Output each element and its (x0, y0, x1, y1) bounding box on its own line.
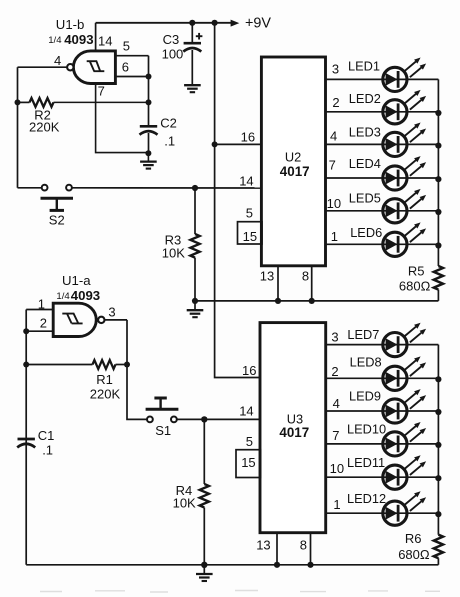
svg-text:4017: 4017 (279, 425, 309, 440)
svg-text:15: 15 (241, 455, 255, 470)
svg-text:LED11: LED11 (347, 455, 385, 470)
svg-text:1: 1 (331, 229, 338, 244)
wire U3 pin 7 to LED10 and rail (326, 443, 439, 445)
wire U3 pin 4 to LED9 and rail (326, 410, 439, 412)
wire U3 pin 10 to LED11 and rail (326, 476, 439, 478)
junction +9V column / U2 pin 16 (212, 141, 218, 147)
label U2 4017 (280, 149, 310, 179)
svg-text:7: 7 (98, 84, 105, 99)
svg-text:680Ω: 680Ω (398, 547, 430, 562)
junction ground bus / U2 pin 8 (309, 298, 315, 304)
svg-text:U1-a: U1-a (62, 273, 91, 288)
svg-text:4093: 4093 (64, 32, 93, 47)
svg-text:LED8: LED8 (350, 355, 382, 370)
wire bottom ground bus (26, 564, 438, 566)
LED10 (383, 422, 426, 456)
label R2 220K (29, 108, 60, 135)
junction R2 / tie column (146, 99, 152, 105)
svg-text:5: 5 (246, 434, 253, 449)
wire U2 pin 10 to LED5 and rail (326, 210, 439, 212)
svg-text:2: 2 (331, 364, 338, 379)
LED12 (383, 491, 426, 525)
svg-text:C2: C2 (160, 115, 177, 130)
switch S2 (pushbutton) (18, 185, 74, 211)
resistor R2 (18, 98, 149, 107)
label C3 100 (162, 32, 184, 62)
svg-text:2: 2 (332, 95, 339, 110)
resistor R4 10K (200, 419, 209, 564)
svg-text:4: 4 (330, 129, 337, 144)
junction rail / LED12 row (435, 511, 441, 517)
junction clock line / R3 (192, 185, 198, 191)
wire U3 pin 2 to LED8 and rail (326, 377, 439, 379)
wire U2 pin 7 to LED4 and rail (326, 177, 439, 179)
wire top ground bus (195, 300, 438, 302)
wire U3 pin 8 to ground bus (310, 533, 312, 565)
wire U1-a pin 1 input (26, 309, 53, 311)
svg-text:14: 14 (239, 174, 253, 189)
junction pin 2 / left column (23, 328, 29, 334)
svg-text:U3: U3 (287, 411, 303, 426)
junction R2 / output column (15, 99, 21, 105)
svg-text:R5: R5 (408, 263, 425, 278)
capacitor C1 .1 (18, 438, 35, 441)
svg-text:3: 3 (332, 62, 339, 77)
LED6 (383, 222, 426, 256)
wire LED cathode rail (top) (437, 79, 439, 266)
wire U1-b pin 14 to rail (95, 23, 97, 51)
junction rail / LED8 row (435, 376, 441, 382)
wire U1-a pin 2 input (26, 330, 53, 332)
resistor R5 680 ohm (434, 266, 443, 301)
svg-text:7: 7 (329, 158, 336, 173)
label R5 680 (399, 263, 431, 293)
junction rail / LED3 row (435, 143, 441, 149)
junction C2 / pin 7 ground node (145, 150, 151, 156)
svg-text:100: 100 (162, 47, 184, 62)
LED11 (383, 455, 426, 489)
svg-text:13: 13 (256, 538, 270, 553)
label R4 10K (173, 483, 196, 510)
svg-text:16: 16 (242, 363, 256, 378)
resistor R1 220K (26, 360, 127, 369)
svg-text:4: 4 (333, 396, 340, 411)
svg-text:C1: C1 (38, 428, 55, 443)
svg-text:4093: 4093 (71, 288, 100, 303)
svg-text:16: 16 (241, 130, 255, 145)
svg-text:LED6: LED6 (350, 225, 382, 240)
junction R1 / left column (23, 362, 29, 368)
svg-text:LED12: LED12 (347, 491, 386, 506)
label R6 680 (398, 531, 430, 562)
label R1 220K (90, 372, 121, 401)
wire U1-a pin 3 output (105, 319, 127, 321)
junction clock line / R4 (201, 416, 207, 422)
junction top rail / C3 (189, 20, 195, 26)
junction pin 6 / tie column (146, 74, 152, 80)
resistor R6 680 ohm (434, 535, 443, 565)
wire input tie column (pins 5/6) down to C2 (148, 56, 150, 126)
wire output column down to S1 (127, 320, 147, 420)
svg-text:LED5: LED5 (349, 190, 381, 205)
svg-text:6: 6 (122, 60, 129, 75)
junction ground bus / R3 (192, 298, 198, 304)
svg-text:10K: 10K (173, 495, 196, 510)
svg-text:.1: .1 (42, 442, 53, 457)
wire S1 to U3 pin 14 (clock line) (177, 418, 261, 420)
svg-text:2: 2 (40, 316, 47, 331)
svg-text:10: 10 (330, 461, 344, 476)
svg-text:S2: S2 (49, 213, 65, 228)
junction rail / LED6 row (435, 242, 441, 248)
wire U1-b pin 6 to tie column (115, 76, 148, 78)
wire left feedback column (U1-b) (17, 67, 19, 188)
svg-text:R6: R6 (405, 531, 422, 546)
svg-text:R1: R1 (96, 372, 113, 387)
label 1/4 4093 (U1-b) (48, 32, 93, 47)
wire U2 pin 1 to LED6 and rail (326, 243, 439, 245)
label 1/4 4093 (U1-a) (56, 288, 100, 303)
switch S1 (pushbutton) (146, 398, 179, 422)
svg-text:5: 5 (123, 39, 130, 54)
svg-text:10: 10 (327, 196, 341, 211)
svg-text:8: 8 (300, 538, 307, 553)
wire U2 pin 4 to LED3 and rail (326, 143, 439, 145)
svg-text:LED1: LED1 (348, 58, 380, 73)
wire U1-b pin 5 to tie column (115, 55, 148, 57)
wire U2 pin 3 to LED1 and rail (326, 78, 439, 80)
label R3 10K (162, 233, 185, 261)
svg-text:LED7: LED7 (347, 327, 379, 342)
svg-text:LED4: LED4 (349, 156, 381, 171)
svg-text:4017: 4017 (280, 164, 310, 179)
LED1 (383, 58, 426, 92)
svg-text:15: 15 (243, 229, 257, 244)
svg-text:LED2: LED2 (349, 91, 381, 106)
wire U2 pin 8 to ground bus (311, 266, 313, 301)
LED8 (383, 356, 426, 390)
svg-text:3: 3 (331, 330, 338, 345)
svg-text:U2: U2 (285, 149, 301, 164)
svg-text:U1-b: U1-b (56, 17, 85, 32)
svg-text:8: 8 (302, 269, 309, 284)
wire U3 pin 13 to ground bus (276, 533, 278, 565)
label C1 .1 (38, 428, 55, 457)
label C2 .1 (160, 115, 177, 148)
svg-text:4: 4 (54, 53, 61, 68)
svg-text:13: 13 (260, 269, 274, 284)
svg-text:10K: 10K (162, 246, 185, 261)
op-amp U1-b 4093 NAND gate (mirrored) (67, 51, 115, 84)
svg-text:220K: 220K (90, 386, 121, 401)
svg-text:S1: S1 (155, 423, 171, 438)
svg-text:7: 7 (332, 428, 339, 443)
IC U2 4017 decade counter (261, 57, 325, 266)
junction rail / LED2 row (435, 110, 441, 116)
wire U1-b pin 4 output (18, 66, 67, 68)
capacitor C3 (electrolytic 100uF) (183, 23, 202, 84)
wire U3 pin 1 to LED12 and rail (326, 512, 439, 514)
junction rail / LED9 row (435, 409, 441, 415)
wire U2 pin 16 (215, 143, 263, 145)
svg-text:LED3: LED3 (349, 125, 381, 140)
wire +9V supply rail (96, 22, 232, 24)
label U3 4017 (279, 411, 309, 440)
svg-text:1/4: 1/4 (56, 291, 70, 302)
LED5 (383, 189, 426, 223)
ground symbol below C3 (184, 84, 201, 86)
LED2 (383, 90, 426, 124)
svg-text:14: 14 (239, 403, 253, 418)
svg-text:5: 5 (246, 205, 253, 220)
LED4 (383, 156, 426, 190)
junction R1 / output column (124, 362, 130, 368)
wire U2 pin 2 to LED2 and rail (326, 111, 439, 113)
wire LED cathode rail (bottom) (437, 345, 439, 535)
svg-text:LED10: LED10 (347, 422, 386, 437)
ground symbol top bus (187, 301, 204, 317)
LED7 (383, 323, 426, 357)
junction rail / LED10 row (435, 442, 441, 448)
svg-text:220K: 220K (29, 119, 60, 134)
svg-text:+9V: +9V (245, 16, 271, 32)
ground symbol bottom bus (196, 565, 213, 581)
junction rail / LED4 row (435, 176, 441, 182)
LED9 (383, 389, 426, 423)
wire left column (inputs to C1 to ground bus) (25, 310, 27, 565)
wire S2 to U2 pin 14 (clock line) (72, 187, 262, 189)
junction top rail / +9V column (212, 20, 218, 26)
svg-text:1: 1 (38, 297, 45, 312)
wire U1-b pin 7 to ground node (96, 84, 149, 153)
wire U3 pin 3 to LED7 and rail (326, 344, 439, 346)
svg-text:1/4: 1/4 (48, 35, 62, 46)
svg-text:.1: .1 (164, 133, 175, 148)
junction ground bus / U3 pin 13 (274, 562, 280, 568)
ground symbol below C2 (140, 153, 157, 168)
resistor R3 10K (190, 188, 199, 301)
junction ground bus / U2 pin 13 (275, 298, 281, 304)
svg-text:680Ω: 680Ω (399, 278, 431, 293)
svg-text:1: 1 (333, 497, 340, 512)
wire +9V column down to U3 pin 16 (215, 23, 261, 378)
svg-text:C3: C3 (163, 32, 180, 47)
LED3 (383, 123, 426, 157)
junction rail / LED5 row (435, 209, 441, 215)
svg-text:3: 3 (108, 305, 115, 320)
junction rail / LED11 row (435, 475, 441, 481)
svg-text:LED9: LED9 (349, 389, 381, 404)
junction ground bus / U3 pin 8 (307, 562, 313, 568)
op-amp U1-a 4093 NAND gate (53, 303, 104, 336)
wire U2 pin 13 to ground bus (277, 266, 279, 301)
node +9V supply arrow (231, 20, 240, 27)
IC U3 4017 decade counter (260, 323, 326, 533)
pin 15 box with pin 5 wire (U3) (236, 450, 261, 478)
svg-text:14: 14 (98, 33, 112, 48)
junction ground bus / R4 (201, 562, 207, 568)
capacitor C2 (140, 126, 158, 152)
pin 15 box with pin 5 wire (U2) (238, 222, 263, 244)
